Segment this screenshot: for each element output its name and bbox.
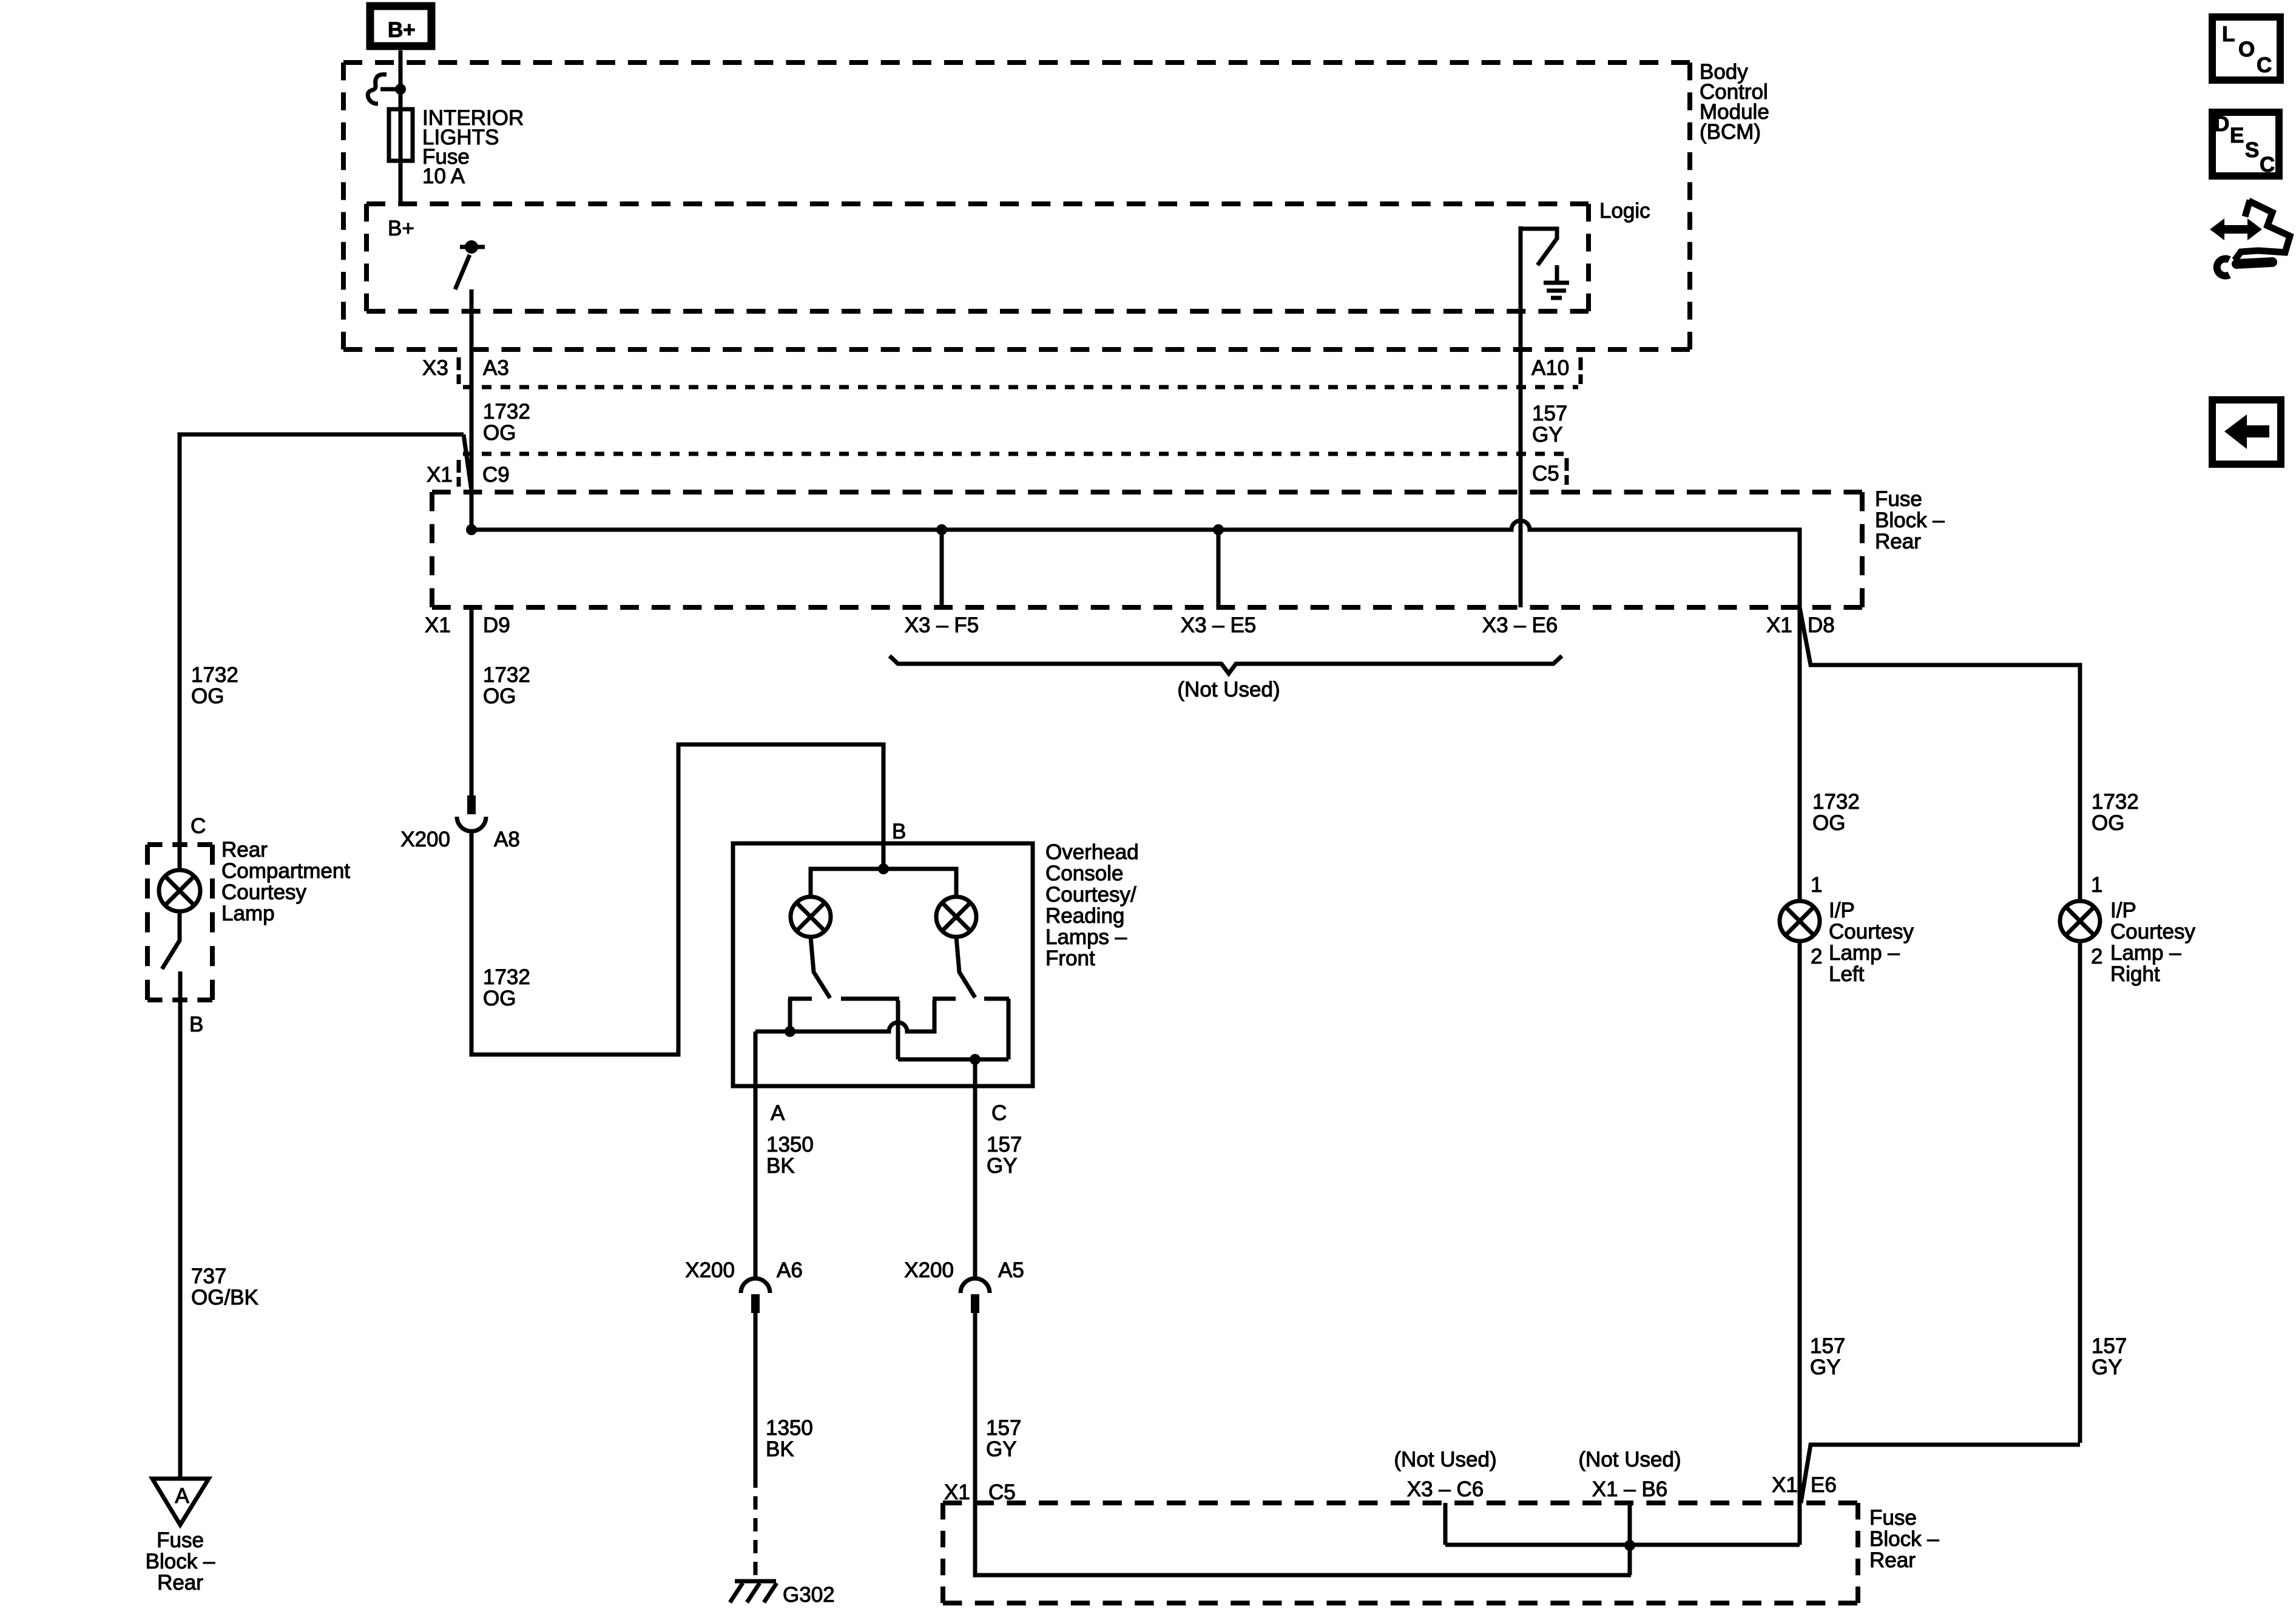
svg-text:I/P: I/P: [1829, 899, 1855, 922]
svg-text:GY: GY: [1810, 1355, 1841, 1379]
svg-text:(BCM): (BCM): [1700, 120, 1761, 144]
svg-text:GY: GY: [1532, 423, 1563, 447]
link to C5 wire: [1628, 1545, 1632, 1575]
svg-text:G302: G302: [783, 1583, 835, 1607]
svg-text:1: 1: [2091, 873, 2102, 897]
svg-text:GY: GY: [987, 1154, 1018, 1178]
svg-text:Fuse: Fuse: [157, 1528, 204, 1552]
wire left lamp return (157 GY): [1798, 941, 1802, 1545]
svg-text:OG: OG: [483, 684, 516, 708]
svg-text:Courtesy: Courtesy: [2110, 920, 2196, 944]
svg-text:1732: 1732: [483, 400, 530, 424]
wire D8 to left I/P lamp: [1798, 607, 1802, 901]
svg-text:1732: 1732: [2092, 790, 2139, 814]
svg-text:1350: 1350: [766, 1416, 813, 1440]
svg-text:1: 1: [1811, 873, 1822, 897]
bus wire inside fuse block: [471, 521, 1800, 607]
fuse block rear (middle) box: [432, 492, 1862, 607]
wire D8 branch to I/P lamps: [1800, 607, 2080, 901]
svg-text:X1: X1: [1766, 613, 1792, 637]
B+ battery terminal box: [370, 6, 431, 46]
svg-text:A5: A5: [998, 1258, 1024, 1282]
svg-text:X3: X3: [422, 356, 448, 380]
stub X1-B6: [1628, 1503, 1632, 1545]
svg-text:Front: Front: [1045, 947, 1095, 970]
svg-text:L: L: [2222, 22, 2235, 46]
fuse INTERIOR LIGHTS 10 A: [389, 107, 413, 162]
svg-text:A6: A6: [777, 1258, 803, 1282]
wire B+ box to fuse: [399, 50, 403, 107]
svg-text:GY: GY: [986, 1437, 1017, 1461]
svg-text:C: C: [991, 1101, 1007, 1125]
overhead console box: [733, 843, 1033, 1086]
svg-text:157: 157: [986, 1416, 1021, 1440]
svg-text:D9: D9: [483, 613, 510, 637]
rear compartment courtesy lamp box: [147, 845, 212, 1000]
svg-text:A: A: [175, 1484, 189, 1508]
svg-text:10 A: 10 A: [422, 164, 465, 188]
rear compartment courtesy lamp: [159, 870, 200, 911]
svg-text:D8: D8: [1808, 613, 1835, 637]
svg-text:Lamp –: Lamp –: [1829, 941, 1900, 965]
rail 2 to rail 4 link: [898, 999, 1008, 1059]
left branch wire to rear lamp (1732 OG): [180, 434, 464, 845]
stub to X3-F5: [940, 530, 944, 607]
svg-text:D: D: [2214, 112, 2229, 136]
svg-text:S: S: [2245, 138, 2259, 162]
wire stub to splice: [380, 87, 400, 92]
svg-text:C: C: [191, 814, 206, 838]
svg-text:Right: Right: [2110, 962, 2160, 986]
svg-text:OG: OG: [2092, 811, 2124, 835]
svg-text:X3 – E5: X3 – E5: [1181, 613, 1257, 637]
svg-text:Rear: Rear: [157, 1571, 203, 1595]
svg-text:2: 2: [1811, 945, 1822, 968]
svg-text:Console: Console: [1045, 862, 1123, 885]
svg-text:X200: X200: [685, 1258, 735, 1282]
svg-text:A10: A10: [1531, 356, 1569, 380]
wire right lamp return (157 GY): [1801, 941, 2080, 1503]
svg-text:Compartment: Compartment: [221, 859, 350, 883]
icon DESC box: [2212, 112, 2279, 177]
svg-text:1732: 1732: [1812, 790, 1860, 814]
svg-text:Fuse: Fuse: [1875, 487, 1922, 511]
junction dot (B+ node): [395, 84, 406, 95]
connector X200 pin A6: [741, 1278, 770, 1313]
wire A6 to ground (1350 BK): [754, 1313, 758, 1474]
svg-text:Left: Left: [1829, 962, 1865, 986]
stub to X3-E5: [1217, 530, 1221, 607]
svg-text:Logic: Logic: [1599, 199, 1650, 223]
svg-text:C: C: [2260, 153, 2275, 177]
junction dot E5: [1213, 524, 1224, 535]
ground G302: [730, 1581, 777, 1602]
svg-text:E6: E6: [1811, 1473, 1837, 1497]
svg-text:1732: 1732: [191, 663, 238, 687]
logic box: [366, 204, 1589, 311]
connector X200 pin A5: [961, 1278, 990, 1313]
svg-text:X200: X200: [904, 1258, 954, 1282]
junction dot C: [970, 1054, 981, 1065]
svg-text:(Not Used): (Not Used): [1578, 1448, 1681, 1471]
wire console pin C (157 GY): [973, 1059, 977, 1278]
svg-text:A3: A3: [483, 356, 509, 380]
crossover wire to rail 3: [755, 1001, 934, 1031]
svg-text:1732: 1732: [483, 965, 530, 989]
svg-text:Block –: Block –: [1869, 1527, 1939, 1551]
svg-text:I/P: I/P: [2110, 899, 2136, 922]
switch rail segments: [788, 997, 1009, 1001]
svg-text:Lamp –: Lamp –: [2110, 941, 2181, 965]
svg-text:157: 157: [1532, 402, 1567, 425]
svg-text:OG: OG: [483, 421, 516, 445]
svg-text:Reading: Reading: [1045, 904, 1124, 928]
svg-text:OG: OG: [1812, 811, 1845, 835]
svg-text:B: B: [189, 1013, 203, 1036]
connector row X1 (C9 / C5): [459, 454, 1567, 487]
I/P courtesy lamp left: [1780, 901, 1820, 941]
svg-text:C5: C5: [1532, 462, 1559, 485]
svg-text:X1: X1: [427, 463, 453, 487]
svg-text:C9: C9: [482, 463, 510, 487]
icon service/door with arrows and wrench: [2210, 200, 2290, 276]
svg-text:Courtesy: Courtesy: [221, 880, 307, 904]
ground symbol (logic): [1544, 265, 1569, 298]
wire A8 to overhead console pin B: [471, 744, 883, 1055]
off-page triangle A (to fuse block rear): [152, 1479, 209, 1525]
svg-text:X3 – C6: X3 – C6: [1407, 1477, 1484, 1501]
svg-text:Overhead: Overhead: [1045, 840, 1139, 864]
wire fuse to BCM logic: [399, 162, 403, 204]
dashed ground lead: [754, 1474, 758, 1581]
svg-text:A8: A8: [494, 828, 520, 851]
svg-text:O: O: [2238, 38, 2255, 61]
svg-text:2: 2: [2091, 945, 2102, 968]
junction dot F5: [936, 524, 947, 535]
svg-text:B: B: [892, 820, 906, 843]
svg-text:GY: GY: [2092, 1355, 2122, 1379]
wire console pin A (1350 BK): [754, 1031, 758, 1278]
rear lamp switch: [162, 911, 180, 969]
slant into pin C9: [464, 434, 471, 490]
switch S (BCM interior lamp driver): [455, 240, 485, 289]
console internal feed wire: [811, 843, 956, 897]
svg-text:OG/BK: OG/BK: [191, 1286, 258, 1309]
svg-text:X200: X200: [400, 828, 450, 851]
svg-text:157: 157: [1810, 1334, 1845, 1358]
icon back-arrow box: [2212, 400, 2281, 464]
svg-text:OG: OG: [483, 987, 516, 1010]
console switch blade left: [811, 937, 830, 998]
brace (not used pins): [890, 656, 1562, 673]
console lamp left: [791, 897, 831, 937]
svg-text:1350: 1350: [766, 1133, 814, 1156]
BCM module box: [343, 62, 1690, 349]
svg-text:X3 – E6: X3 – E6: [1482, 613, 1558, 637]
svg-text:OG: OG: [191, 684, 224, 708]
wire to node B: [178, 971, 183, 1479]
internal wire C6/B6 to E6: [1445, 1543, 1800, 1547]
svg-text:Lamp: Lamp: [221, 902, 275, 925]
svg-text:737: 737: [191, 1264, 226, 1288]
svg-text:157: 157: [2092, 1334, 2127, 1358]
BCM ground switch wiring: [1521, 226, 1557, 265]
console switch blade right: [956, 937, 975, 998]
rear lamp wire C: [178, 845, 182, 870]
svg-text:Courtesy: Courtesy: [1829, 920, 1914, 944]
svg-text:Block –: Block –: [1875, 508, 1945, 532]
wire A5 to fuse block rear C5 (157 GY): [975, 1313, 1631, 1575]
junction dot B6: [1624, 1540, 1635, 1551]
svg-text:Lamps –: Lamps –: [1045, 925, 1127, 949]
junction dot B: [878, 863, 889, 874]
svg-text:Block –: Block –: [146, 1550, 215, 1573]
svg-text:(Not Used): (Not Used): [1394, 1448, 1496, 1471]
wire D9 down to connector X200 A8: [470, 607, 474, 795]
svg-text:(Not Used): (Not Used): [1177, 678, 1280, 701]
icon LOC box: [2212, 17, 2280, 80]
connector X200 pin A8: [457, 795, 486, 831]
wire A10 output (157 GY): [1519, 226, 1523, 607]
wire A3 feed (1732 OG) switch to fuse block bus: [470, 289, 474, 530]
svg-text:X1 – B6: X1 – B6: [1592, 1477, 1668, 1501]
svg-text:Rear: Rear: [221, 838, 268, 862]
svg-text:Fuse: Fuse: [1869, 1506, 1917, 1530]
svg-text:Rear: Rear: [1875, 530, 1921, 553]
svg-text:A: A: [771, 1101, 785, 1125]
svg-text:BK: BK: [766, 1437, 794, 1461]
svg-text:1732: 1732: [483, 663, 530, 687]
stub X3-C6: [1443, 1503, 1448, 1545]
svg-text:X1: X1: [1772, 1473, 1798, 1497]
svg-text:Rear: Rear: [1869, 1548, 1916, 1572]
I/P courtesy lamp right: [2060, 901, 2100, 941]
junction dot A: [785, 1026, 795, 1037]
svg-text:157: 157: [987, 1133, 1022, 1156]
svg-text:X1: X1: [425, 613, 451, 637]
fuse block rear (bottom) box: [943, 1503, 1858, 1603]
console lamp right: [936, 897, 976, 937]
svg-text:X3 – F5: X3 – F5: [905, 613, 979, 637]
rail left leg: [788, 999, 792, 1031]
svg-text:B+: B+: [388, 217, 414, 240]
connector row X3 (A3 / A10): [459, 357, 1581, 387]
splice curl symbol (feed continues): [368, 75, 387, 104]
svg-text:C: C: [2257, 53, 2272, 77]
svg-text:B+: B+: [388, 18, 416, 42]
svg-text:BK: BK: [766, 1154, 795, 1178]
junction dot D9: [466, 524, 477, 535]
svg-text:Courtesy/: Courtesy/: [1045, 883, 1136, 906]
svg-text:E: E: [2230, 124, 2244, 147]
